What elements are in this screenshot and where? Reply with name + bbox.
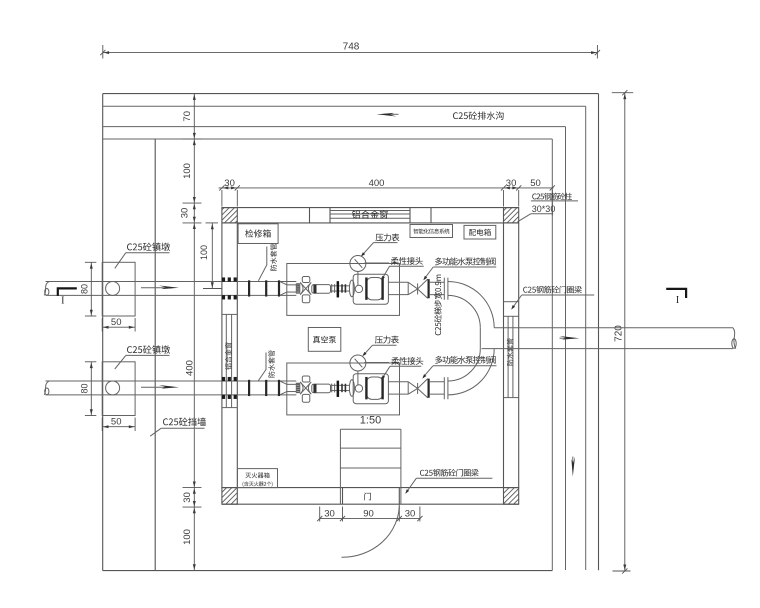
motor barrel — [312, 285, 331, 294]
pump train 1 (suction pipe, pedestal, pump set, flexible joint, control valve) — [44, 256, 448, 332]
svg-text:720: 720 — [614, 325, 625, 342]
svg-text:400: 400 — [185, 360, 196, 376]
top window glazing lines — [330, 211, 410, 219]
stairs — [340, 429, 401, 504]
svg-text:100: 100 — [199, 245, 209, 260]
corner column hatch top-left — [222, 208, 237, 223]
label C25 door ring beam bottom — [405, 469, 492, 494]
ditch flow arrow top — [377, 113, 399, 117]
shaft — [339, 285, 349, 287]
svg-text:70: 70 — [182, 111, 193, 122]
pump impeller cross — [300, 282, 311, 294]
svg-text:400: 400 — [369, 178, 385, 189]
drain ditch inner line R3 — [103, 127, 566, 570]
outer retaining boundary R1 — [103, 94, 599, 571]
outflow flow arrow — [560, 336, 580, 340]
thrust block pedestal — [102, 262, 135, 316]
svg-text:30: 30 — [180, 208, 191, 219]
discharge pipe — [388, 281, 408, 283]
discharge elbow train 2 (up) — [448, 349, 494, 395]
right wall window band — [504, 316, 519, 397]
pump room top wall — [222, 208, 519, 223]
label C25 retaining wall — [150, 417, 206, 436]
pump inlet serrated flange — [296, 284, 300, 293]
svg-text:30: 30 — [506, 178, 517, 189]
label pressure gauge 2 — [362, 336, 399, 357]
door text — [364, 493, 371, 501]
pump room bottom wall — [222, 488, 519, 505]
discharge elbow train 1 (down) — [448, 282, 494, 328]
power distribution box — [464, 225, 496, 239]
label waterproof sleeve 1 — [258, 244, 276, 281]
multi-function pump control valve — [408, 282, 417, 289]
label C25 concrete column 30*30 — [518, 193, 579, 222]
pipe break symbol left — [44, 282, 49, 296]
corner column hatch bottom-right — [504, 488, 519, 505]
retaining wall line R4 — [103, 139, 553, 571]
label C25 drain ditch — [453, 111, 504, 119]
svg-text:I: I — [676, 295, 679, 306]
dimension 50 pedestal — [102, 326, 135, 328]
pressure gauge — [350, 256, 366, 272]
svg-text:748: 748 — [343, 42, 360, 53]
top dimension chain 30/400/30/50 — [219, 178, 555, 216]
section mark I left — [58, 288, 77, 306]
dimension 720 right — [612, 90, 633, 573]
svg-text:80: 80 — [80, 284, 90, 294]
wall sleeve flange dashes — [222, 277, 225, 281]
left dimension chain 70/100/30/400/30/100 — [180, 94, 202, 571]
label flexible joint 2 — [381, 357, 423, 380]
coupling flange thick — [337, 281, 340, 297]
svg-text:1:50: 1:50 — [360, 415, 381, 427]
svg-text:I: I — [61, 296, 64, 307]
label C25 door ring beam right — [511, 286, 594, 310]
ditch flow arrow right — [571, 457, 575, 477]
door jambs — [343, 488, 400, 505]
label pressure gauge 1 — [361, 233, 400, 256]
inspection box — [238, 224, 278, 244]
pump train 2 — [44, 355, 448, 431]
corner column hatch top-right — [504, 208, 519, 223]
section mark I right — [666, 289, 686, 306]
svg-text:50: 50 — [530, 178, 541, 189]
suction spool flanges — [248, 280, 250, 296]
pump room left wall — [222, 223, 237, 488]
label waterproof sleeve 2 — [258, 350, 274, 380]
left wall window band — [222, 314, 237, 407]
gauge tap circle — [355, 285, 362, 292]
label thrust block 2 — [115, 345, 170, 369]
svg-text:90: 90 — [363, 509, 374, 520]
suction pipe — [46, 281, 297, 283]
shaft fittings — [331, 285, 337, 287]
label aluminum window top — [352, 210, 388, 219]
label control valve 2 — [422, 356, 496, 379]
svg-text:30: 30 — [182, 492, 193, 503]
dimension 748 top — [100, 42, 600, 59]
label flexible joint 1 — [381, 257, 423, 280]
pump base frame — [287, 264, 400, 316]
vacuum pump box — [308, 328, 341, 352]
svg-text:30: 30 — [324, 509, 335, 520]
label control valve 1 — [423, 257, 496, 280]
right wall lintel beam line — [504, 301, 519, 303]
flexible joint — [349, 280, 354, 297]
svg-text:100: 100 — [182, 163, 193, 179]
drain ditch outer line R2 — [103, 106, 586, 570]
fire extinguisher box — [238, 469, 278, 488]
valve outlet spool — [430, 281, 445, 283]
dimension 100 to pump axis — [199, 223, 222, 289]
pump room right wall — [504, 223, 519, 488]
svg-text:30: 30 — [224, 178, 235, 189]
suction reducer — [280, 282, 286, 285]
label thrust block 1 — [115, 243, 170, 269]
corner column hatch bottom-left — [222, 488, 237, 505]
flow arrow on pipe — [141, 286, 179, 290]
svg-text:30*30: 30*30 — [532, 204, 556, 214]
bottom dimension chain 30/90/30 — [317, 507, 422, 522]
svg-text:50: 50 — [111, 317, 122, 328]
outflow manifold pipe — [482, 328, 737, 349]
intelligent info system box — [410, 225, 453, 238]
door swing arc — [342, 504, 400, 557]
elbow flanges — [443, 278, 445, 300]
pump feet pads — [302, 276, 310, 282]
label stair tread note rotated — [434, 275, 442, 336]
svg-text:100: 100 — [182, 529, 193, 545]
svg-text:30: 30 — [405, 509, 416, 520]
manifold tee cap — [479, 328, 481, 349]
dimension 80 pedestal — [90, 262, 92, 316]
